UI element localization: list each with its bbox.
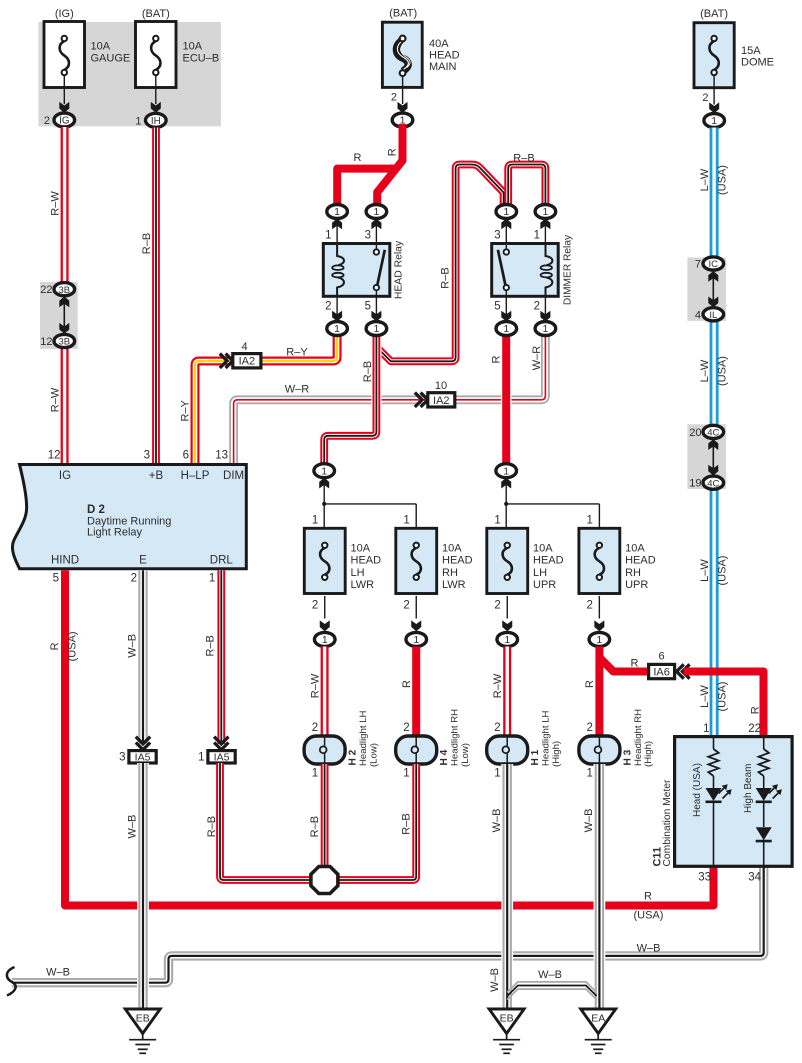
svg-text:HEAD: HEAD	[533, 555, 564, 567]
node 22 3B	[54, 283, 75, 296]
wire R-B: HEAD relay pin 5 down, jog left, to LH LWR junction node	[324, 334, 376, 464]
svg-text:2: 2	[391, 92, 397, 104]
svg-text:W–B: W–B	[637, 942, 661, 954]
svg-text:1: 1	[503, 206, 509, 218]
svg-text:R–B: R–B	[440, 267, 452, 288]
svg-text:5: 5	[365, 301, 371, 313]
svg-text:H 3: H 3	[622, 749, 633, 765]
svg-text:R–B: R–B	[141, 233, 153, 254]
svg-text:W–B: W–B	[46, 967, 70, 979]
svg-text:H 2: H 2	[348, 749, 359, 765]
wire W-B: C11 pin 34 across bottom to body ground splice	[12, 866, 764, 982]
combination meter C11	[675, 737, 793, 867]
svg-text:(USA): (USA)	[634, 910, 664, 922]
svg-text:R: R	[386, 148, 398, 156]
svg-text:LH: LH	[533, 567, 547, 579]
wire R-B: headlight H4 down and left to joint connector	[337, 764, 416, 880]
svg-text:3B: 3B	[58, 285, 70, 296]
svg-text:R–B: R–B	[400, 813, 412, 834]
svg-text:IA2: IA2	[433, 395, 450, 407]
svg-text:10A: 10A	[91, 41, 111, 53]
svg-text:R–B: R–B	[513, 153, 534, 165]
svg-text:EB: EB	[136, 1013, 150, 1025]
DIMMER relay switch	[505, 244, 507, 253]
node 12 3B	[54, 334, 75, 347]
svg-text:LH: LH	[351, 567, 365, 579]
svg-text:12: 12	[48, 450, 61, 462]
svg-text:DIM: DIM	[223, 470, 244, 482]
node 1 below fuse 10A HEAD LH LWR	[314, 632, 335, 646]
ground EA	[581, 1009, 616, 1034]
wire: fuse 10A HEAD LH LWR pin 2 to output node	[324, 596, 326, 619]
svg-text:W–R: W–R	[285, 384, 310, 396]
wire R-W: LH UPR fuse to headlight H1	[503, 647, 511, 738]
wire continuation squiggle	[7, 967, 16, 996]
junction 3 IA5	[136, 743, 150, 750]
svg-text:1: 1	[413, 634, 419, 646]
svg-text:20: 20	[689, 427, 701, 439]
svg-text:2: 2	[44, 115, 50, 127]
svg-text:ECU–B: ECU–B	[183, 53, 220, 65]
node 1 below HEAD relay pin 5	[366, 322, 387, 336]
DIMMER relay pin stubs and connector nodes	[506, 219, 545, 322]
HEAD relay switch	[375, 244, 377, 253]
wire R: RH UPR fuse to headlight H3 with branch to IA6	[595, 647, 603, 738]
relay DIMMER Relay	[492, 244, 559, 297]
node 1 above HEAD relay pin 3	[366, 205, 387, 219]
svg-text:EB: EB	[500, 1013, 514, 1025]
svg-text:2: 2	[494, 722, 500, 734]
headlight H1 Headlight LH (High)	[487, 736, 528, 764]
svg-text:W–B: W–B	[491, 809, 503, 833]
svg-text:10A: 10A	[625, 543, 645, 555]
svg-text:R–B: R–B	[206, 816, 218, 837]
node 1 above DIMMER relay pin 3	[496, 205, 517, 219]
svg-text:4: 4	[695, 309, 701, 321]
svg-text:2: 2	[325, 301, 331, 313]
svg-text:10: 10	[435, 380, 447, 392]
svg-text:L–W: L–W	[699, 559, 711, 582]
svg-text:22: 22	[40, 284, 52, 296]
svg-text:1: 1	[703, 723, 709, 735]
wire: fuse GAUGE to connector IG	[63, 75, 65, 104]
svg-text:R–Y: R–Y	[180, 399, 192, 421]
svg-text:10A: 10A	[533, 543, 553, 555]
svg-text:High Beam: High Beam	[743, 764, 754, 813]
node 1 above DIMMER relay pin 1	[535, 205, 556, 219]
svg-text:(BAT): (BAT)	[389, 8, 417, 20]
svg-text:R: R	[644, 891, 652, 903]
svg-text:R–W: R–W	[49, 387, 61, 412]
svg-text:1: 1	[711, 115, 717, 127]
svg-text:R–W: R–W	[492, 673, 504, 698]
junction 4 IA2	[226, 354, 233, 368]
svg-text:3B: 3B	[58, 337, 70, 348]
wire R-B from IH connector to D2 pin +B	[152, 128, 160, 465]
wire R-Y: HEAD relay pin 2 to IA2 junction 4 to D2 pin H-LP	[195, 334, 337, 465]
wire R-W: LH LWR fuse to headlight H2	[321, 647, 329, 738]
svg-text:1: 1	[312, 768, 318, 780]
node 1 below fuse 10A HEAD RH LWR	[406, 632, 427, 646]
node 1 below fuse 10A HEAD LH UPR	[497, 632, 518, 646]
C11 internal: Head (USA) indicator branch	[713, 737, 715, 749]
wire: fuse 10A HEAD RH LWR pin 2 to output node	[415, 596, 417, 619]
svg-text:GAUGE: GAUGE	[91, 53, 131, 65]
node 7 IC	[703, 257, 724, 270]
svg-text:(IG): (IG)	[55, 8, 74, 20]
svg-text:2: 2	[131, 573, 137, 585]
node 1 IH	[146, 113, 167, 127]
diode below High Beam LED	[756, 827, 772, 840]
svg-text:10A: 10A	[351, 543, 371, 555]
junction 10 IA2	[421, 393, 428, 407]
svg-text:1: 1	[322, 634, 328, 646]
svg-text:1: 1	[198, 752, 204, 764]
node 19 4C	[703, 476, 724, 489]
svg-text:1: 1	[586, 768, 592, 780]
svg-text:W–B: W–B	[126, 634, 138, 658]
svg-text:R: R	[584, 680, 596, 688]
node 1 below fuse 10A HEAD RH UPR	[589, 632, 610, 646]
connector IC/IL block	[687, 257, 726, 321]
svg-text:W–B: W–B	[583, 809, 595, 833]
wire R-B: link between DIMMER relay pins 3 and 1 (inverted U)	[508, 165, 545, 206]
wire: fuse DOME pin 2 to node	[713, 75, 715, 105]
node 1 above LWR fuses	[319, 478, 329, 489]
svg-text:E: E	[139, 555, 147, 567]
svg-text:HEAD: HEAD	[429, 50, 460, 62]
svg-text:R: R	[631, 658, 639, 670]
svg-text:W–B: W–B	[489, 968, 501, 992]
wire: junction network feeding 10A HEAD LH/RH LWR fuses	[324, 478, 416, 529]
svg-text:(BAT): (BAT)	[142, 8, 170, 20]
svg-text:4: 4	[241, 341, 247, 353]
HEAD relay coil	[337, 244, 344, 266]
svg-text:2: 2	[403, 600, 409, 612]
svg-text:13: 13	[215, 450, 228, 462]
wire R: DIMMER relay pin 5 down to UPR fuse junction node	[501, 334, 511, 464]
svg-text:H 4: H 4	[439, 749, 450, 765]
wire: fuse HEAD MAIN pin 2 to node	[402, 76, 404, 104]
svg-text:R: R	[401, 680, 413, 688]
node 1 above UPR fuses	[501, 478, 511, 489]
node 1 below DIMMER relay pin 5	[496, 322, 517, 336]
svg-text:1: 1	[503, 323, 509, 335]
svg-text:19: 19	[689, 478, 701, 490]
svg-text:1: 1	[373, 206, 379, 218]
svg-text:UPR: UPR	[533, 579, 556, 591]
fuse 15A DOME (BAT)	[694, 23, 734, 88]
svg-text:5: 5	[494, 301, 500, 313]
svg-text:IC: IC	[709, 259, 719, 270]
svg-text:RH: RH	[442, 567, 458, 579]
svg-text:(USA): (USA)	[716, 165, 728, 195]
svg-text:1: 1	[494, 768, 500, 780]
svg-text:DRL: DRL	[210, 555, 234, 567]
svg-text:(BAT): (BAT)	[700, 8, 728, 20]
svg-text:D 2: D 2	[87, 504, 105, 516]
DIMMER relay coil	[546, 244, 553, 266]
C11 internal: High Beam indicator branch	[763, 737, 765, 749]
svg-text:2: 2	[494, 600, 500, 612]
svg-text:2: 2	[403, 722, 409, 734]
svg-text:3: 3	[144, 450, 150, 462]
svg-text:1: 1	[504, 634, 510, 646]
headlight H2 Headlight LH (Low)	[304, 736, 345, 764]
wire: junction network feeding 10A HEAD LH/RH UPR fuses	[506, 478, 599, 529]
connector 4C block	[687, 424, 726, 489]
svg-text:R–Y: R–Y	[286, 346, 308, 358]
node 2 IG	[54, 113, 75, 127]
svg-text:3: 3	[119, 752, 125, 764]
svg-text:6: 6	[183, 450, 189, 462]
wire R: IA6 to C11 pin 22	[684, 672, 764, 737]
svg-text:L–W: L–W	[699, 168, 711, 191]
svg-text:RH: RH	[625, 567, 641, 579]
node 1 below HEAD MAIN	[392, 113, 413, 127]
wire W-B: D2 pin E to IA5 junction 3	[137, 570, 149, 744]
svg-text:H 1: H 1	[530, 749, 541, 765]
svg-text:R: R	[49, 642, 61, 650]
svg-text:(High): (High)	[551, 741, 562, 767]
wire R: RH LWR fuse to headlight H4	[412, 647, 420, 738]
svg-text:4C: 4C	[707, 478, 719, 489]
node 20 4C	[703, 425, 724, 438]
svg-text:1: 1	[403, 768, 409, 780]
svg-text:3: 3	[494, 230, 500, 242]
junction 1 IA5	[214, 743, 228, 750]
svg-text:6: 6	[658, 651, 664, 663]
svg-text:Light Relay: Light Relay	[87, 527, 143, 539]
svg-text:EA: EA	[591, 1013, 605, 1025]
node 1 below DIMMER relay pin 2	[535, 322, 556, 336]
svg-text:(USA): (USA)	[716, 556, 728, 586]
svg-text:IA6: IA6	[653, 666, 670, 678]
wire W-B: headlight H1 to ground EB	[501, 764, 513, 1009]
wire R-B: D2 pin DRL to IA5 junction 1	[217, 570, 225, 744]
svg-text:H–LP: H–LP	[181, 470, 210, 482]
fusible link 40A HEAD MAIN (BAT)	[382, 22, 422, 87]
svg-text:(USA): (USA)	[716, 682, 728, 712]
svg-text:1: 1	[542, 206, 548, 218]
svg-text:(Low): (Low)	[460, 743, 471, 767]
wire R-B: headlight H2 to joint connector	[321, 764, 329, 867]
svg-text:10A: 10A	[442, 543, 462, 555]
fuse 10A GAUGE (IG)	[44, 22, 85, 88]
svg-text:(USA): (USA)	[66, 631, 78, 661]
wire W-B: headlight H3 to ground EA	[594, 764, 606, 1009]
svg-text:R: R	[354, 152, 362, 164]
wire: fuse 10A HEAD LH UPR pin 2 to output node	[506, 596, 508, 619]
svg-text:1: 1	[312, 515, 318, 527]
svg-text:+B: +B	[149, 470, 164, 482]
svg-text:1: 1	[586, 515, 592, 527]
wire R (USA): D2 HIND down, across bottom, up to C11 pin 33	[65, 570, 714, 905]
wire: fuse 10A HEAD RH UPR pin 2 to output node	[598, 596, 600, 619]
svg-text:Combination Meter: Combination Meter	[662, 779, 673, 867]
svg-text:R–B: R–B	[309, 816, 321, 837]
svg-text:MAIN: MAIN	[429, 61, 457, 73]
wire: fuse ECU-B to connector IH	[155, 75, 157, 104]
svg-text:L–W: L–W	[699, 359, 711, 382]
HEAD relay pin stubs and connector nodes	[337, 219, 376, 322]
LED Head (USA)	[706, 788, 722, 801]
svg-text:HEAD Relay: HEAD Relay	[393, 240, 404, 299]
svg-text:2: 2	[534, 301, 540, 313]
svg-text:HEAD: HEAD	[442, 555, 473, 567]
svg-text:22: 22	[748, 723, 761, 735]
svg-text:IA5: IA5	[135, 752, 151, 764]
connector 3B block	[40, 282, 78, 349]
wire R-W from IG connector to D2 pin IG	[61, 127, 69, 465]
svg-text:1: 1	[325, 230, 331, 242]
svg-text:1: 1	[209, 573, 215, 585]
svg-text:1: 1	[373, 323, 379, 335]
svg-text:1: 1	[542, 323, 548, 335]
svg-text:1: 1	[494, 515, 500, 527]
wire R: 40A HEAD MAIN node to HEAD relay pins 1 and 3	[377, 124, 402, 205]
svg-text:R: R	[749, 706, 761, 714]
svg-text:1: 1	[321, 465, 327, 477]
svg-text:R–B: R–B	[362, 361, 374, 382]
wire W-B: IA5 junction 3 to ground EB	[137, 763, 149, 1009]
headlight H3 Headlight RH (High)	[579, 736, 620, 764]
svg-text:15A: 15A	[741, 45, 761, 57]
svg-text:R–W: R–W	[309, 673, 321, 698]
svg-text:R–W: R–W	[49, 191, 61, 216]
svg-text:2: 2	[702, 92, 708, 104]
svg-text:IH: IH	[151, 116, 161, 127]
top-left fuse block background	[39, 22, 221, 126]
svg-text:33: 33	[698, 872, 711, 884]
svg-text:1: 1	[503, 465, 509, 477]
LED High Beam	[756, 788, 772, 801]
svg-text:1: 1	[334, 206, 340, 218]
svg-text:3: 3	[365, 230, 371, 242]
svg-text:1: 1	[596, 634, 602, 646]
svg-text:34: 34	[748, 872, 761, 884]
svg-text:DIMMER Relay: DIMMER Relay	[563, 234, 574, 305]
wire W-R: DIMMER relay pin 2 to IA2 junction 10 to D2 pin DIM	[234, 334, 546, 465]
svg-text:IL: IL	[709, 310, 717, 321]
svg-text:Head (USA): Head (USA)	[692, 763, 703, 817]
node 1 above HEAD relay pin 1	[327, 205, 348, 219]
node 1 below HEAD relay pin 2	[327, 322, 348, 336]
wire W-B: bridge between EB and EA grounds	[507, 982, 596, 993]
headlight H4 Headlight RH (Low)	[396, 736, 437, 764]
svg-text:DOME: DOME	[741, 57, 774, 69]
svg-text:2: 2	[586, 722, 592, 734]
svg-text:HEAD: HEAD	[351, 555, 382, 567]
svg-text:40A: 40A	[429, 38, 449, 50]
wire R-B: IA5 junction 1 down and right to joint connector	[220, 763, 312, 880]
node 1 below DOME	[704, 114, 725, 128]
svg-text:L–W: L–W	[699, 685, 711, 708]
joint connector (octagon)	[311, 867, 338, 894]
svg-text:2: 2	[586, 600, 592, 612]
svg-text:4C: 4C	[707, 428, 719, 439]
svg-text:1: 1	[334, 323, 340, 335]
svg-text:1: 1	[403, 515, 409, 527]
svg-text:10A: 10A	[183, 41, 203, 53]
ground EB (center)	[489, 1009, 524, 1034]
svg-text:(Low): (Low)	[368, 743, 379, 767]
svg-text:R–B: R–B	[205, 635, 217, 656]
svg-text:7: 7	[695, 259, 701, 271]
svg-text:W–B: W–B	[538, 969, 562, 981]
svg-text:5: 5	[53, 573, 59, 585]
fuse 10A ECU-B (BAT)	[136, 22, 177, 88]
svg-text:IG: IG	[59, 470, 71, 482]
svg-text:R: R	[490, 355, 502, 363]
svg-text:LWR: LWR	[442, 579, 466, 591]
svg-text:IG: IG	[59, 116, 69, 127]
svg-text:HEAD: HEAD	[625, 555, 656, 567]
wire L-W: DOME node down to C11 pin 1	[710, 128, 719, 737]
svg-text:2: 2	[312, 600, 318, 612]
relay HEAD Relay	[323, 244, 390, 297]
svg-text:(USA): (USA)	[716, 356, 728, 386]
wire R-B: from HEAD relay pin 5 branch up to DIMMER pin 3 and down to LWR fuse junction	[378, 165, 504, 362]
svg-text:IA5: IA5	[214, 752, 230, 764]
svg-text:HIND: HIND	[51, 555, 79, 567]
svg-text:1: 1	[534, 230, 540, 242]
svg-text:1: 1	[135, 115, 141, 127]
ground EB (left)	[125, 1009, 160, 1034]
svg-text:IA2: IA2	[239, 356, 256, 368]
svg-text:LWR: LWR	[351, 579, 375, 591]
svg-text:UPR: UPR	[625, 579, 648, 591]
svg-text:(High): (High)	[643, 741, 654, 767]
svg-text:2: 2	[312, 722, 318, 734]
svg-text:W–R: W–R	[531, 346, 543, 371]
svg-text:W–B: W–B	[126, 815, 138, 839]
node 4 IL	[703, 308, 724, 321]
svg-text:12: 12	[40, 336, 52, 348]
relay D2 Daytime Running Light Relay	[12, 465, 246, 569]
